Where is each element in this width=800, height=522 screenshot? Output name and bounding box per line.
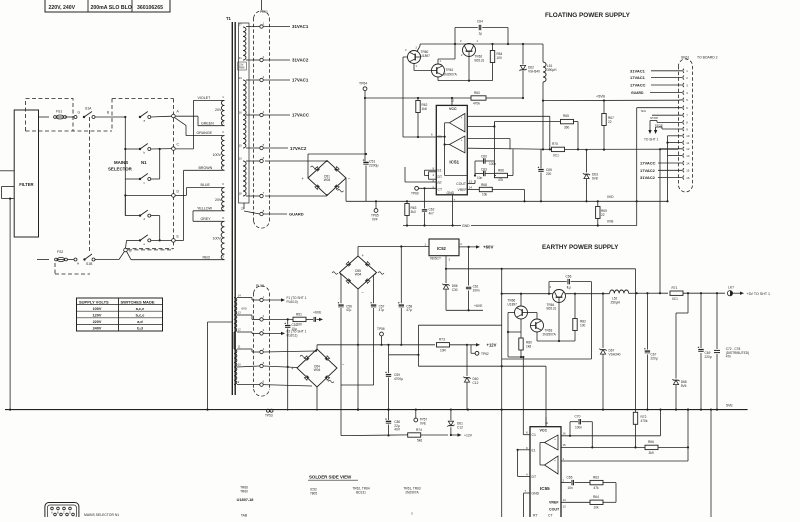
GND rail (403, 225, 461, 227)
svg-text:RT: RT (438, 181, 442, 185)
svg-text:6V0: 6V0 (242, 307, 248, 311)
svg-text:R71: R71 (672, 286, 678, 290)
wire IC51 pin15 (467, 126, 494, 128)
connector PL52 (253, 293, 255, 389)
node A (172, 114, 176, 118)
node D row (125, 194, 171, 196)
svg-text:R51: R51 (296, 312, 302, 316)
svg-text:2N2907A: 2N2907A (543, 333, 557, 337)
resistor R68 10k (467, 189, 479, 191)
svg-text:TR61: TR61 (446, 68, 454, 72)
svg-text:SOLDER SIDE VIEW: SOLDER SIDE VIEW (309, 475, 352, 480)
svg-text:C12: C12 (473, 381, 479, 385)
fuse rating table (45, 0, 170, 12)
svg-text:LK7: LK7 (728, 286, 734, 290)
IC55 pin wires left (522, 357, 524, 435)
svg-text:220: 220 (546, 172, 552, 176)
svg-text:15: 15 (686, 169, 690, 173)
U1897 package outline bottom left (45, 503, 79, 521)
svg-text:TR60: TR60 (240, 489, 248, 493)
wire L52 to output (629, 292, 668, 294)
svg-text:3k3: 3k3 (411, 210, 416, 214)
svg-text:100V: 100V (213, 153, 222, 157)
wire TR60 base to TR61 (413, 64, 415, 71)
svg-text:GND: GND (532, 492, 540, 496)
svg-text:1μ: 1μ (479, 32, 483, 36)
svg-text:S1B: S1B (86, 262, 93, 266)
svg-text:YELLOW: YELLOW (197, 206, 213, 210)
transformer T1 primary windings (221, 100, 224, 125)
svg-text:FLOATING POWER SUPPLY: FLOATING POWER SUPPLY (545, 12, 631, 19)
wire A to VIOLET (175, 115, 198, 117)
svg-text:STOP: STOP (650, 116, 658, 120)
capacitor C63 10n (474, 161, 476, 176)
bridge rectifier D54 (297, 349, 337, 387)
svg-text:0VD: 0VD (607, 195, 614, 199)
svg-text:TP62: TP62 (481, 352, 489, 356)
wire R66 to bus (512, 149, 514, 175)
svg-text:VSH340: VSH340 (528, 69, 540, 73)
svg-text:+5VB: +5VB (596, 95, 605, 99)
svg-text:MAINS SELECTOR N1: MAINS SELECTOR N1 (84, 513, 119, 517)
resistor R62 1k8 (417, 98, 419, 101)
svg-text:100: 100 (497, 56, 503, 60)
regulator IC52 7805CT (429, 239, 459, 256)
svg-text:CT: CT (438, 188, 443, 192)
wire F to RED (127, 252, 131, 260)
svg-text:R60: R60 (474, 91, 480, 95)
junction b-c (159, 148, 161, 150)
main 5V rail through TR64 (502, 293, 553, 295)
svg-text:+12V: +12V (464, 434, 473, 438)
svg-text:47μ: 47μ (346, 308, 352, 312)
switch S1A (83, 116, 85, 118)
resistor R69 22 (597, 200, 599, 202)
resistor R51 100 (293, 317, 306, 321)
wire D51 - output to 0V rail (345, 178, 347, 201)
wire PL51 stem (261, 0, 263, 10)
capacitor C62 4n7 (424, 188, 426, 208)
IC IC55 control chip (530, 427, 561, 520)
inductor L51 390uH (542, 44, 544, 62)
svg-text:R63: R63 (593, 476, 599, 480)
svg-text:GND: GND (462, 224, 470, 228)
+5VB rail (543, 99, 678, 101)
svg-text:+: + (554, 459, 556, 463)
capacitor C72-C78 distributed (716, 293, 718, 349)
svg-text:17VACC: 17VACC (640, 161, 656, 166)
svg-text:IC55: IC55 (540, 486, 550, 491)
test point TP57 0VE (415, 410, 417, 418)
svg-text:VREF: VREF (458, 188, 467, 192)
svg-text:COUT: COUT (549, 507, 560, 511)
wire 0VE down to R72 (635, 269, 637, 413)
svg-text:TAB: TAB (241, 514, 248, 518)
wire TR60 emitter left-down (403, 56, 408, 58)
svg-text:E1: E1 (438, 169, 442, 173)
wire C56 line to R74 line (341, 434, 408, 437)
wire D54 top to +12V rail (316, 345, 318, 349)
svg-text:U1897-18: U1897-18 (237, 498, 254, 502)
top rail floating regulator (420, 43, 543, 45)
svg-text:4700μ: 4700μ (394, 377, 403, 381)
svg-text:TP56: TP56 (377, 327, 385, 331)
capacitor C80 22u 40V (388, 410, 390, 420)
svg-text:1k8: 1k8 (422, 107, 427, 111)
svg-text:100n: 100n (473, 288, 480, 292)
svg-text:0C1: 0C1 (553, 154, 559, 158)
node E (172, 239, 176, 243)
svg-text:10k: 10k (594, 506, 600, 510)
svg-text:5k6: 5k6 (417, 439, 422, 443)
svg-text:BD131: BD131 (356, 490, 366, 494)
svg-text:31VAC1: 31VAC1 (630, 68, 646, 73)
svg-text:47k: 47k (498, 178, 504, 182)
svg-text:U1897: U1897 (508, 302, 518, 306)
svg-text:15: 15 (563, 443, 567, 447)
svg-text:SUPPLY VOLTS: SUPPLY VOLTS (79, 299, 109, 304)
node G (74, 116, 77, 119)
0V floating rail (403, 200, 530, 202)
wire D55 - output (357, 289, 359, 410)
svg-text:PL52: PL52 (256, 284, 264, 288)
svg-text:IC52: IC52 (437, 246, 447, 251)
capacitor C60 100n (475, 160, 483, 162)
svg-text:R64: R64 (593, 495, 599, 499)
svg-text:C1: C1 (532, 433, 536, 437)
svg-text:GREY: GREY (201, 217, 212, 221)
svg-text:R66: R66 (648, 440, 654, 444)
svg-text:20V: 20V (215, 198, 222, 202)
svg-text:R73: R73 (439, 338, 445, 342)
diode D56 C30 (445, 269, 447, 283)
SK61 pin7 wire (652, 114, 682, 116)
svg-text:220V: 220V (93, 320, 102, 324)
SK61 pin10 wire (668, 135, 683, 137)
svg-text:C1: C1 (438, 135, 442, 139)
resistor R66 47k (495, 173, 508, 177)
svg-text:17VAC2: 17VAC2 (640, 168, 656, 173)
svg-text:47n: 47n (726, 355, 732, 359)
svg-text:20V: 20V (215, 108, 222, 112)
wire D54 bottom to 0V rail (316, 387, 318, 411)
wire D55 + output to IC52 (357, 247, 359, 257)
svg-text:W04: W04 (324, 178, 331, 182)
svg-text:17VACC: 17VACC (292, 113, 310, 118)
transistor TR62 BD131 (463, 44, 476, 57)
wire F1 to sheet 1 (263, 299, 282, 301)
svg-text:22: 22 (608, 120, 612, 124)
capacitor C61 100n (468, 247, 470, 286)
svg-text:0VB: 0VB (607, 220, 614, 224)
svg-text:10n: 10n (477, 176, 483, 180)
svg-text:VSH340: VSH340 (609, 352, 621, 356)
17VACC floating rail (565, 148, 679, 150)
svg-text:C66: C66 (566, 274, 572, 278)
svg-text:100n: 100n (489, 162, 496, 166)
wire IC52 gnd pin (445, 256, 447, 269)
capacitor C70 100n (569, 422, 571, 436)
svg-text:11: 11 (686, 141, 689, 145)
VCC rail to floating regulator (365, 97, 523, 99)
resistor R70 (530, 148, 552, 150)
SK61 pin8 wire stop arrow (657, 121, 682, 123)
svg-text:+6VE: +6VE (313, 311, 322, 315)
svg-text:390μH: 390μH (547, 68, 557, 72)
svg-text:17VACC: 17VACC (630, 83, 646, 88)
svg-text:+12V: +12V (487, 343, 497, 348)
svg-text:a,d: a,d (137, 320, 143, 324)
wire A to ORANGE diagonal (175, 118, 186, 126)
svg-text:W04: W04 (355, 273, 362, 277)
op-amp IC51 lower comparator (449, 136, 465, 153)
svg-text:10: 10 (686, 134, 690, 138)
T1 secondary windings upper (243, 27, 246, 60)
svg-text:47k: 47k (594, 486, 600, 490)
svg-text:250μH: 250μH (611, 301, 621, 305)
T1 secondary windings lower (234, 298, 237, 316)
svg-text:N1: N1 (141, 160, 147, 165)
svg-text:R68: R68 (481, 183, 487, 187)
SK61 signal wires 1-4 (651, 70, 682, 72)
wire PL52 pin5 to bridge D54 left (263, 366, 297, 368)
svg-text:47μ: 47μ (379, 308, 385, 312)
svg-text:FS1: FS1 (56, 110, 62, 114)
svg-text:14: 14 (469, 186, 473, 190)
test point TP60 (415, 186, 419, 190)
svg-text:100V: 100V (213, 237, 222, 241)
wire YELLOW-GREY link (193, 210, 221, 212)
node F (124, 248, 128, 252)
0VD rail (530, 200, 668, 202)
dashed enclosure S1A (26, 99, 74, 132)
wire PL52 pin4 to bridge D54 top (263, 351, 315, 352)
wire TR66 base-collector chain (520, 319, 522, 338)
IC55 pin1 wire (561, 460, 688, 462)
svg-text:VIOLET: VIOLET (198, 96, 212, 100)
svg-text:−: − (554, 470, 556, 474)
svg-text:ORANGE: ORANGE (197, 131, 213, 135)
svg-text:6V8: 6V8 (592, 176, 598, 180)
wire TR60 collector up (417, 46, 420, 52)
svg-text:470k: 470k (473, 102, 480, 106)
0VB rail (530, 225, 637, 227)
svg-text:16: 16 (563, 432, 567, 436)
resistor R66 3k9 (earthy) (645, 445, 658, 449)
svg-text:240V: 240V (93, 327, 102, 331)
svg-text:C64: C64 (477, 20, 483, 24)
wire IC51 pin16 (467, 115, 550, 117)
svg-text:−: − (554, 446, 556, 450)
svg-text:100: 100 (580, 323, 586, 327)
svg-text:PL51: PL51 (260, 10, 268, 14)
svg-text:220μ: 220μ (705, 355, 712, 359)
wires T1 lower secondary to PL52 (237, 297, 252, 299)
fuse FS1 (54, 116, 57, 119)
wire IC52 output +60V (459, 246, 476, 248)
wire mains live in (0, 170, 14, 172)
svg-text:TP64: TP64 (359, 82, 367, 86)
resistor R65 (561, 119, 574, 123)
IC51 COUT pin wire (467, 183, 475, 185)
connector PL51 (253, 18, 255, 221)
svg-text:BLUE: BLUE (201, 183, 211, 187)
svg-text:31VAC2: 31VAC2 (640, 175, 656, 180)
svg-text:R74: R74 (416, 428, 422, 432)
capacitor C66 1u (548, 282, 550, 294)
capacitor C65 10n series R63 47k (561, 482, 571, 484)
inductor output down-wire (542, 101, 544, 150)
svg-text:DT: DT (438, 175, 443, 179)
svg-text:CT: CT (548, 514, 553, 518)
switch c (125, 178, 140, 180)
svg-text:120V: 120V (93, 314, 102, 318)
resistor R67 22 (603, 101, 605, 114)
wire GREEN (198, 125, 221, 127)
resistor R71 0C1 (670, 291, 683, 295)
svg-text:200mA SLO BLO: 200mA SLO BLO (91, 5, 132, 11)
diode D68 5V6 (687, 293, 689, 313)
+12V rail and R73 (387, 344, 389, 346)
svg-text:7805CT: 7805CT (430, 257, 441, 261)
transformer core (231, 22, 233, 395)
svg-text:5V6: 5V6 (681, 384, 687, 388)
test point TP64 (363, 87, 367, 91)
dashed enclosure S1B (55, 273, 90, 275)
diode D67 VSH340 (602, 292, 604, 294)
wire PL52 pin6 to bridge D54 bottom (263, 385, 312, 386)
svg-text:GUARD: GUARD (631, 91, 644, 95)
diode D61 C12 (450, 410, 452, 421)
svg-text:1k8: 1k8 (526, 344, 531, 348)
transistor TR64 BD131 (553, 290, 566, 303)
svg-text:C12: C12 (457, 425, 463, 429)
svg-text:17VAC1: 17VAC1 (292, 78, 309, 83)
svg-text:47μ: 47μ (406, 308, 412, 312)
svg-text:N/C: N/C (641, 109, 647, 113)
svg-text:VCC: VCC (449, 107, 457, 111)
SK61 pin11 wire (668, 142, 683, 144)
wire TR61 collector (437, 59, 439, 64)
svg-text:360: 360 (564, 126, 570, 130)
op-amp IC51 upper comparator (449, 114, 465, 132)
transistor TR63 2N2907A (531, 319, 544, 332)
svg-text:GND: GND (447, 191, 455, 195)
bottom earth rail (5, 409, 748, 411)
svg-text:17VAC1: 17VAC1 (630, 75, 646, 80)
svg-text:S1A: S1A (85, 107, 92, 111)
resistor R64 100 (492, 44, 494, 51)
T1 secondary former outline upper (239, 23, 250, 203)
smoothing capacitor C58 47u (400, 247, 402, 304)
svg-text:TO BOARD 2: TO BOARD 2 (697, 56, 718, 60)
svg-text:PL6/11): PL6/11) (287, 334, 298, 338)
svg-text:14: 14 (563, 498, 567, 502)
svg-text:7805: 7805 (310, 491, 317, 495)
svg-text:100n: 100n (575, 426, 582, 430)
wire IC51 pin1 (467, 138, 510, 140)
wire 17VAC to bridge D51 upper (265, 160, 327, 162)
svg-text:10n: 10n (568, 486, 574, 490)
svg-text:360106265: 360106265 (137, 5, 163, 11)
dashed enclosure N1 mains selector (112, 98, 173, 100)
svg-text:SELECTOR: SELECTOR (108, 167, 133, 172)
svg-text:RMS: RMS (239, 66, 245, 69)
svg-text:H: H (77, 262, 79, 266)
resistor R63 3k3 (406, 200, 408, 202)
svg-text:COUT: COUT (456, 182, 466, 186)
svg-text:RED: RED (203, 255, 211, 259)
svg-text:−: − (461, 127, 463, 131)
svg-text:RT: RT (533, 514, 537, 518)
IC IC51 regulator control (436, 105, 467, 194)
svg-text:0C1: 0C1 (672, 297, 678, 301)
svg-text:BD131: BD131 (547, 307, 557, 311)
mains filter FL1 (14, 110, 38, 237)
bridge rectifier D51 (308, 161, 346, 196)
SK61 pin12 wire (660, 148, 682, 150)
test point TP62 (475, 351, 479, 355)
svg-text:C70: C70 (575, 415, 581, 419)
wire filter to FS1 (39, 116, 50, 118)
svg-text:MAINS: MAINS (114, 160, 128, 165)
svg-text:C63: C63 (481, 168, 487, 172)
dashed link F (128, 249, 173, 251)
svg-text:4n7: 4n7 (429, 211, 435, 215)
diode D60 C12 (466, 345, 468, 376)
svg-text:+5V TO SHT 1: +5V TO SHT 1 (747, 292, 770, 296)
svg-text:W04: W04 (314, 368, 321, 372)
wire D55 ac corners down (340, 274, 341, 276)
svg-text:10k: 10k (482, 193, 488, 197)
wire E to BROWN (175, 239, 183, 241)
IC51 E1 DT pin box (429, 172, 437, 179)
wire S1B to F (95, 259, 119, 261)
svg-text:DT: DT (532, 475, 537, 479)
supply voltage selection table (77, 298, 163, 331)
svg-text:D: D (69, 511, 71, 515)
svg-text:FILTER: FILTER (19, 182, 33, 187)
IC51 output bus (445, 122, 450, 124)
resistor R80 1k8 (519, 338, 523, 350)
resistor R72 470k (633, 412, 637, 424)
svg-text:13: 13 (563, 505, 567, 509)
wire F2 to sheet 1 (263, 332, 282, 334)
resistor R64 10k (earthy) (561, 501, 590, 503)
resistor R60 470k (471, 96, 486, 100)
svg-text:12: 12 (451, 99, 455, 103)
svg-text:BD131: BD131 (475, 58, 485, 62)
svg-text:2200μ: 2200μ (369, 164, 379, 168)
svg-text:+60V: +60V (483, 245, 493, 250)
svg-text:12: 12 (545, 421, 549, 425)
wire mains neutral in (2, 185, 15, 187)
smoothing capacitor C59 4700u (388, 355, 390, 373)
switch b (125, 148, 140, 150)
wire C to VIOLET (175, 148, 193, 150)
secondary net labels (263, 26, 290, 28)
resistor R82 100 (574, 331, 576, 342)
switch d (124, 195, 126, 215)
svg-text:C60: C60 (481, 155, 487, 159)
reservoir capacitor C51 2200u (364, 98, 366, 161)
wire PL52 pin2 rail (263, 318, 293, 320)
switch S1B (83, 258, 85, 260)
svg-text:GREEN: GREEN (201, 121, 214, 125)
diode D62 VSH340 (522, 44, 524, 65)
svg-text:40V: 40V (394, 428, 401, 432)
wires T1 to PL51 (246, 26, 260, 28)
